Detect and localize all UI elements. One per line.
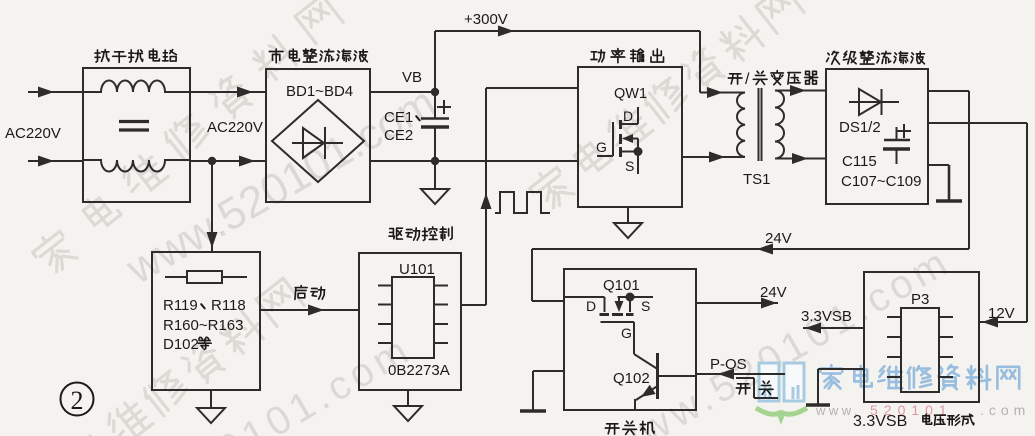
IC P3 body and pins [887,308,953,392]
transistor QW1: power MOSFET symbol [597,107,643,174]
svg-text:3.3VSB: 3.3VSB [853,413,907,430]
ground: below power output box [614,207,642,238]
wire: drive pulse from U101 up to power block [461,88,578,305]
label: on/off (Chinese) with bracket [736,378,778,398]
svg-text:.com: .com [980,402,1030,418]
label: 3.3VSB [801,308,852,325]
junction: node VB [431,88,439,96]
junction: AC bottom node feeding startup resistors [208,157,216,165]
label: mains rectify & filter (Chinese) [269,49,367,63]
svg-text:C107~C109: C107~C109 [841,173,921,190]
svg-text:D102: D102 [163,336,199,353]
diode DS1/2 symbol [849,89,899,115]
svg-text:D: D [623,108,633,124]
block: 3.3VSB regulator box [864,272,979,402]
svg-text:2: 2 [71,386,84,415]
ground: secondary-side ground bar at rectifier box [928,165,962,201]
wire: drop from AC bottom node to startup resistor box, arrow down [207,161,218,252]
label: power output (Chinese) [591,49,664,63]
svg-text:P3: P3 [911,291,929,308]
svg-text:+300V: +300V [464,11,508,28]
transistor Q101: P-MOSFET switch symbol [565,293,653,355]
wire: secondary top to rectifier box, arrow [775,85,826,96]
ground: left of on/off box (bar style) [520,371,564,411]
bridge rectifier BD1~BD4: diamond [272,100,364,182]
wire: 12V output from rectifier box down to P3, arrow [928,123,1027,328]
node: AC220V mains input, left [5,125,61,142]
block: secondary rectifier/filter box [826,69,928,204]
transformer TS1: core [759,88,762,161]
label: 24V switched output [760,284,787,301]
svg-text:D: D [586,298,596,314]
transformer TS1: primary winding [737,93,745,157]
svg-text:C115: C115 [842,153,877,170]
label: Q102 [613,370,650,387]
svg-text:BD1~BD4: BD1~BD4 [286,83,353,100]
svg-text:Q101: Q101 [603,277,640,294]
label: anti-interference circuit (Chinese) [95,49,176,62]
label: OB2273A [388,362,450,379]
node VB label [402,69,422,86]
transistor Q102: NPN driving Q101 gate [634,353,696,410]
svg-text:G: G [596,139,607,155]
svg-text:0B2273A: 0B2273A [388,362,450,379]
label: CE1, CE2 [384,109,420,144]
label: DS1/2 [839,119,881,136]
block: drive control box [359,253,461,390]
svg-text:TS1: TS1 [743,171,771,188]
svg-text:G: G [621,325,632,341]
capacitor: EMI filter X-cap (two bars) [119,122,149,131]
label: C115 [842,153,877,170]
label: 24V on long feed line [765,230,792,247]
svg-text:CE2: CE2 [384,127,413,144]
svg-text:12V: 12V [988,305,1015,322]
svg-text:R119: R119 [163,297,198,314]
label: C107~C109 [841,173,921,190]
wire: AC input line N (bottom) with arrow [28,156,83,167]
label: Q101 [603,277,640,294]
label: AC220V between blocks [207,119,263,136]
wire: +300V down to transformer primary top, arrow [700,31,745,98]
ground: below drive control box [394,390,422,421]
block: power on/off switch box [564,269,696,410]
svg-text:S: S [641,298,650,314]
svg-text:R160~R163: R160~R163 [163,317,243,334]
label: +300V [464,11,508,28]
pin labels D G S of QW1 [596,108,634,174]
svg-text:24V: 24V [760,284,787,301]
junction: bottom rail at CE cap [431,157,439,165]
wire: filtered AC bottom to bridge with arrow [190,156,266,167]
ground: below CE1/CE2 [421,161,449,204]
wire: P-OS control input, arrow left [696,369,785,380]
wire: 3.3VSB output, arrow left [803,323,864,334]
svg-text:DS1/2: DS1/2 [839,119,881,136]
label: BD1~BD4 [286,83,353,100]
wire: startup feed to U101 with arrow [260,305,359,316]
label: R160~R163 [163,317,243,334]
wire: bottom rail from bridge to power-output block [370,160,578,162]
block: power output box [578,67,682,207]
svg-text:AC220V: AC220V [5,125,61,142]
label: P-OS [710,356,747,373]
svg-text:AC220V: AC220V [207,119,263,136]
wire: filtered AC top to bridge with arrow [190,87,266,98]
block: anti-interference circuit (EMI filter) box [83,68,190,202]
svg-text:24V: 24V [765,230,792,247]
label: start-up (Chinese) [295,286,325,300]
label: QW1 [614,86,647,102]
svg-text:QW1: QW1 [614,86,647,102]
pin labels D S G of Q101 [586,298,650,341]
label: 12V [988,305,1015,322]
label: drive control (Chinese) [389,227,452,240]
svg-text:U101: U101 [399,261,435,278]
svg-text:R118: R118 [211,297,246,314]
block: startup resistor network box [152,252,260,390]
waveform: drive square-wave pulses [495,192,550,213]
diode symbol inside bridge [292,127,343,159]
transformer TS1: secondary winding [775,91,784,159]
svg-text:VB: VB [402,69,422,86]
label: secondary rectify & filter (Chinese) [827,51,925,64]
wire: secondary bottom to rectifier box, arrow [775,153,826,164]
capacitor C115/C107~C109 polarized cap symbol [883,124,911,164]
wire: 24V output from rectifier box, down and left across, arrow [532,91,969,301]
svg-text:/: / [745,71,750,88]
ground: left of P3 box (bar style) [806,369,864,405]
wire: bridge + output to node VB [370,91,436,93]
wire: power block output to transformer primary bottom, arrow [682,152,745,163]
svg-text:P-OS: P-OS [710,356,747,373]
label: TS1 [743,171,771,188]
svg-text:CE1: CE1 [384,109,413,126]
svg-text:3.3VSB: 3.3VSB [801,308,852,325]
svg-text:Q102: Q102 [613,370,650,387]
wire: +300V rail from VB up and right, arrow [435,26,700,93]
label: switching transformer (Chinese) [728,71,817,88]
label: D102 etc. [163,336,211,353]
figure number 2 (circled) [61,383,94,416]
label: 3.3VSB voltage formation (Chinese) [853,413,974,430]
wire: AC input line L (top) with arrow [28,87,83,98]
resistor: startup resistor symbol [165,271,247,283]
label: R119, R118 [163,297,246,314]
inductor: EMI filter bottom choke winding [83,160,190,172]
capacitor CE1/CE2: main filter cap on VB [421,92,451,161]
ground: below startup box [197,390,225,423]
inductor: EMI filter top choke winding [83,81,190,93]
label: P3 [911,291,929,308]
IC U101 body and pins [378,277,448,358]
label: on/off machine (Chinese) [605,421,654,434]
wire: switched 24V output, arrow right [696,298,778,309]
block: mains rectifier/filter box [266,69,370,202]
label: U101 [399,261,435,278]
svg-text:S: S [625,158,634,174]
